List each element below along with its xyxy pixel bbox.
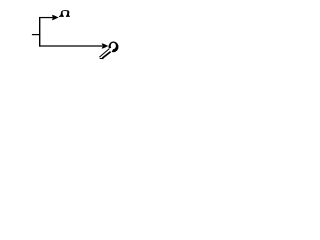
arrowhead: bottom arrow	[102, 43, 109, 49]
node B: rotated omega arch (filled ring with offset hole)	[109, 42, 119, 53]
wire: top horizontal	[39, 17, 53, 19]
wire: vertical branch	[39, 17, 41, 47]
wire: bottom horizontal	[39, 45, 102, 47]
node B: rotated omega foot serif bar	[100, 57, 104, 59]
node B: rotated omega thick leg	[102, 52, 110, 59]
node B: rotated omega thin leg	[99, 49, 109, 57]
wire: input stub	[32, 34, 40, 36]
node A: upright omega glyph	[59, 10, 70, 17]
arrowhead: top arrow	[52, 15, 59, 21]
